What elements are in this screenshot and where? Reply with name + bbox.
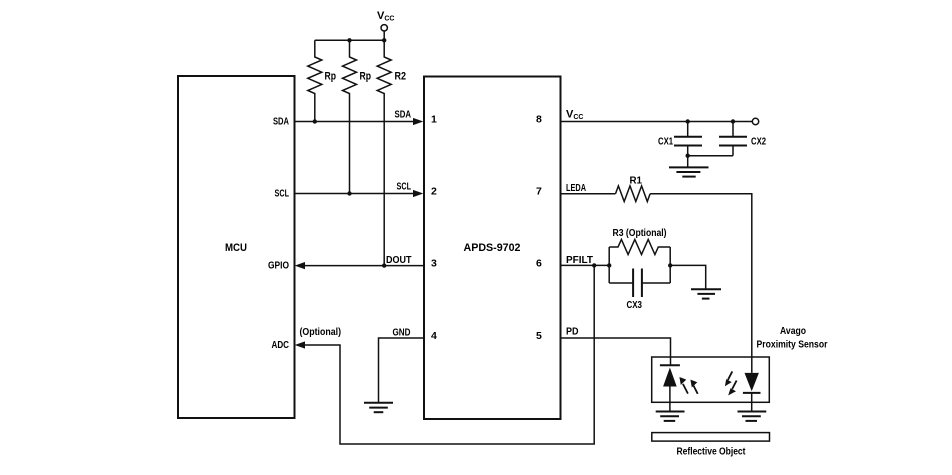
svg-text:SDA: SDA (395, 109, 412, 121)
svg-text:CX1: CX1 (658, 136, 673, 148)
svg-text:DOUT: DOUT (386, 254, 412, 266)
junction dot Rp1-SDA (313, 119, 317, 123)
junction dot parallel right node (668, 263, 672, 267)
APDS-9702 box (424, 77, 561, 420)
ground PFILT (691, 289, 721, 298)
svg-text:R3 (Optional): R3 (Optional) (613, 228, 667, 239)
svg-text:8: 8 (536, 114, 542, 126)
wire DOUT (304, 265, 424, 267)
junction dot CX1 bottom (686, 154, 690, 158)
svg-text:5: 5 (536, 330, 542, 342)
svg-text:3: 3 (431, 258, 437, 270)
svg-text:MCU: MCU (225, 242, 247, 254)
capacitor CX3 plates (633, 269, 642, 298)
wire Vcc pin 8 (561, 121, 752, 123)
svg-text:CX2: CX2 (751, 136, 766, 148)
ground under GND pin (364, 403, 393, 412)
junction dot parallel left node (607, 263, 611, 267)
capacitor CX1 (674, 122, 702, 156)
wire CX1-CX2 bottom link (688, 155, 733, 157)
svg-text:Avago: Avago (780, 325, 806, 337)
ground sensor right (738, 412, 767, 421)
LED light arrow 1 (725, 371, 732, 386)
svg-text:(Optional): (Optional) (300, 327, 342, 338)
capacitor CX3 bottom branch wires (609, 282, 670, 284)
wire Vcc stub (383, 31, 385, 40)
arrowhead SDA into pin 1 (413, 118, 423, 125)
wire PD pin 5 (561, 338, 671, 365)
junction dot top bus middle (347, 38, 351, 42)
wire PFILT network to ground (670, 265, 706, 289)
MCU box (178, 76, 295, 418)
svg-text:APDS-9702: APDS-9702 (464, 242, 521, 254)
photodiode light arrow 2 (690, 380, 697, 394)
terminal circle Vcc right (752, 118, 758, 124)
capacitor CX2 (719, 122, 747, 156)
photodiode lead to ground (669, 387, 671, 412)
svg-text:Proximity Sensor: Proximity Sensor (757, 339, 828, 351)
svg-text:GPIO: GPIO (268, 260, 289, 272)
svg-text:ADC: ADC (272, 339, 290, 351)
svg-text:SDA: SDA (273, 116, 289, 128)
junction dot Rp2-SCL (347, 191, 351, 195)
wire SCL (295, 193, 415, 195)
wire GND pin 4 (379, 338, 425, 403)
junction dot R2-DOUT (382, 263, 386, 267)
svg-text:GND: GND (393, 327, 411, 339)
wire PFILT pin 6 (561, 264, 609, 266)
svg-text:2: 2 (431, 186, 437, 198)
wire LEDA to sensor (650, 194, 752, 373)
svg-text:Rp: Rp (360, 71, 372, 83)
arrowhead SCL into pin 2 (413, 190, 423, 197)
svg-text:Reflective Object: Reflective Object (677, 446, 746, 458)
svg-text:7: 7 (536, 186, 542, 198)
arrowhead ADC into MCU (295, 341, 305, 348)
photodiode triangle (663, 368, 677, 387)
svg-text:6: 6 (536, 257, 542, 269)
wire down to decoupling ground (687, 156, 689, 168)
resistor R3 top branch (609, 240, 670, 255)
svg-text:CX3: CX3 (627, 299, 643, 311)
wire LEDA pin 7 left part (561, 193, 616, 195)
reflective object bar (652, 433, 770, 442)
wire SDA (295, 121, 415, 123)
resistor Rp (second) (343, 40, 357, 193)
resistor R1 (616, 186, 651, 202)
resistor Rp (first) (308, 40, 322, 121)
photodiode light arrow 1 (679, 377, 688, 394)
junction dot top bus right (382, 38, 386, 42)
arrowhead DOUT into GPIO (295, 262, 305, 269)
wire top bus (315, 39, 384, 41)
svg-text:PD: PD (566, 326, 579, 338)
svg-text:PFILT: PFILT (566, 254, 594, 266)
photodiode cathode bar (660, 364, 680, 366)
resistor R2 (377, 40, 391, 265)
junction dot CX1 top (686, 119, 690, 123)
svg-text:LEDA: LEDA (566, 182, 586, 194)
LED triangle (745, 373, 759, 391)
LED light arrow 2 (728, 381, 736, 396)
svg-text:SCL: SCL (275, 188, 290, 200)
svg-text:R2: R2 (395, 71, 407, 83)
junction dot PFILT-ADC (592, 263, 596, 267)
junction dot CX2 top (731, 119, 735, 123)
wire ADC optional route (304, 265, 594, 444)
Vcc terminal circle (381, 25, 387, 31)
svg-text:1: 1 (431, 114, 437, 126)
svg-text:Rp: Rp (325, 71, 337, 83)
LED lead to ground (751, 393, 753, 412)
ground sensor left (656, 412, 685, 421)
svg-text:4: 4 (431, 330, 437, 342)
ground decoupling (669, 167, 709, 176)
svg-text:SCL: SCL (397, 181, 412, 193)
LED cathode bar (743, 392, 761, 394)
R3/CX3 parallel network frame (609, 247, 670, 283)
svg-text:R1: R1 (630, 175, 643, 187)
sensor box (652, 357, 770, 402)
